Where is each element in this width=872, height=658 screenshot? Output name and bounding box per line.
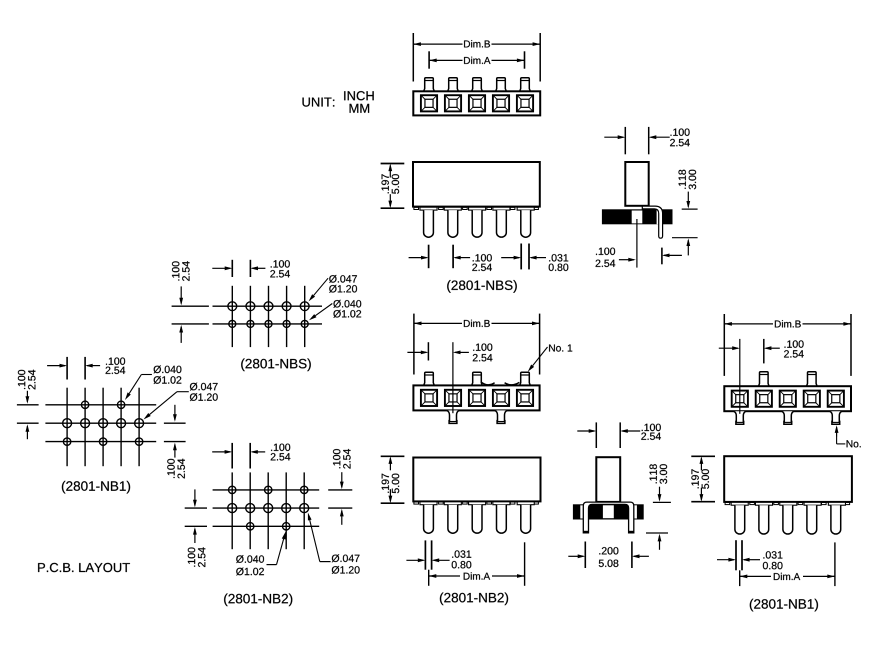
- NB1 layout right arrow up: [174, 445, 176, 458]
- 2801-NB2 side body: [596, 457, 620, 502]
- NB2 layout hole row1 col1: [229, 486, 236, 493]
- 2801-NB1 top socket hole 5: [828, 391, 844, 407]
- NBS layout dia .040 label: [333, 300, 361, 308]
- 2801-NB1 top bottom pin 1: [734, 411, 746, 424]
- 2801-NBS front .100/2.54 label: [473, 254, 492, 261]
- 2801-NBS top view pin 5: [520, 78, 531, 92]
- 2801-NBS front .197/5.00 label: [382, 174, 400, 194]
- NB1 layout grid row line 2: [45, 422, 156, 424]
- 2801-NBS side pitch arrows: [604, 136, 623, 138]
- NBS layout left arrow down: [180, 286, 182, 303]
- NB1 layout left .100/2.54 label: [18, 370, 36, 390]
- NB2 layout hole row3 col2: [247, 523, 254, 530]
- NBS layout hole row1 col1: [228, 302, 237, 311]
- 2801-NB1 top Dim.B line: [724, 323, 773, 325]
- NBS layout left .100/2.54 label: [172, 261, 190, 281]
- 2801-NB2 top Dim.B ext left: [413, 314, 415, 375]
- NBS layout dia .040 leader: [315, 304, 332, 316]
- 2801-NBS front view base tabs: [414, 207, 419, 209]
- 2801-NB2 top break arc 1: [481, 382, 494, 385]
- 2801-NB1 front base tabs: [725, 503, 730, 505]
- NB2 layout hole row2 col1: [228, 504, 237, 513]
- NB1 layout right stub row2: [164, 422, 186, 424]
- NB2 layout left arrow up: [194, 529, 196, 543]
- NBS layout hole row1 col2: [246, 302, 255, 311]
- 2801-NBS top view Dim.B extension line left: [412, 33, 414, 82]
- NB1 layout hole row3 col3: [99, 438, 106, 445]
- NB1 layout hole row2 col3: [99, 419, 108, 428]
- UNIT note: [303, 98, 335, 107]
- 2801-NBS side insulator bar: [602, 209, 673, 224]
- 2801-NB1 front pin 2: [759, 505, 769, 534]
- NB1 layout grid vertical 4: [120, 388, 122, 467]
- NBS layout hole row1 col4: [282, 302, 291, 311]
- NB1 layout hole row2 col5: [135, 419, 144, 428]
- 2801-NBS front .031 arrows: [501, 257, 519, 259]
- 2801-NBS front pitch tick 2: [452, 245, 454, 269]
- 2801-NBS side slot notch: [657, 209, 659, 224]
- 2801-NBS side bottom arrow left: [664, 254, 682, 256]
- 2801-NB1 front .197 arrows: [700, 458, 702, 470]
- 2801-NB2 top socket hole 2: [445, 390, 461, 406]
- 2801-NB1 front .197 ext top: [691, 455, 715, 457]
- 2801-NB2 front pin 1: [424, 505, 434, 533]
- 2801-NB2 top socket hole 5: [517, 390, 533, 406]
- 2801-NBS front pitch arrows: [409, 257, 427, 259]
- NBS layout hole row2 col5: [301, 320, 308, 327]
- 2801-NBS front .197 ext top: [381, 163, 405, 165]
- 2801-NBS front .031/0.80 label: [549, 254, 568, 261]
- 2801-NB1 front Dim.A ext left: [739, 570, 741, 586]
- 2801-NB1 top No.1 arrow: [836, 427, 838, 436]
- 2801-NBS side .118 line top: [682, 208, 698, 210]
- 2801-NB2 top pin2 centerline: [452, 342, 454, 413]
- NB1 layout dia .047 leader: [177, 391, 189, 393]
- NB2 layout hole row2 col3: [264, 504, 273, 513]
- NB2 layout hole row1 col3: [265, 486, 272, 493]
- NBS layout pitch tick 2: [249, 260, 251, 277]
- 2801-NB1 front pin 4: [807, 505, 817, 534]
- NBS layout grid vertical 2: [249, 286, 251, 347]
- NB1 layout hole row3 col5: [135, 438, 142, 445]
- NB1 layout grid row line 3: [45, 441, 156, 443]
- 2801-NBS side .118 arrow down: [687, 192, 689, 207]
- NB2 layout left stub row2: [185, 507, 207, 509]
- 2801-NB2 front .197/5.00 label: [382, 474, 400, 494]
- NB2 layout grid vertical 1: [231, 472, 233, 549]
- 2801-NB1 front Dim.A label: [774, 573, 800, 580]
- 2801-NB2 front pin 3: [472, 505, 482, 533]
- 2801-NB2 front .031 tick 2: [431, 540, 433, 569]
- NB2 layout right arrow up: [341, 511, 343, 525]
- 2801-NB1 top Dim.B label: [775, 320, 801, 327]
- NB1 layout grid row line 1: [45, 404, 156, 406]
- 2801-NB2 side staple lead: [583, 502, 634, 533]
- 2801-NB2 front .197 arrows: [389, 458, 391, 470]
- NB1 layout hole row2 col2: [81, 419, 90, 428]
- 2801-NB1 top socket hole 3: [780, 391, 796, 407]
- 2801-NBS front view pin 4: [497, 210, 507, 237]
- NB2 layout left .100/2.54 label: [188, 547, 206, 567]
- 2801-NBS side pin centerline: [636, 219, 638, 268]
- NB1 layout grid vertical 5: [138, 388, 140, 467]
- NB1 layout pitch tick 2: [84, 357, 86, 380]
- NB2 layout grid row line 1: [213, 489, 320, 491]
- NB1 layout right stub row3: [164, 441, 186, 443]
- NB1 layout left stub row2: [17, 422, 39, 424]
- 2801-NB1 front Dim.A line: [740, 575, 771, 577]
- 2801-NB1 top socket hole 1: [732, 391, 748, 407]
- NB1 layout left arrow up: [26, 426, 28, 439]
- 2801-NB1 top bottom pin 5: [830, 411, 842, 424]
- NB2 layout grid vertical 2: [249, 472, 251, 549]
- 2801-NB2 top No.1 leader: [533, 347, 548, 366]
- 2801-NB2 side slot right: [634, 505, 637, 518]
- 2801-NB1 front .031 tick 2: [741, 540, 743, 570]
- NB1 layout dia .040 label: [154, 366, 182, 374]
- 2801-NBS front view pin 2: [448, 210, 458, 237]
- NBS layout hole row1 col3: [264, 302, 273, 311]
- 2801-NB2 side slot left: [580, 505, 583, 518]
- 2801-NBS side bent lead: [642, 206, 662, 238]
- 2801-NB2 front base tabs: [414, 502, 419, 504]
- 2801-NB1 top socket hole 4: [804, 391, 820, 407]
- 2801-NB2 front Dim.A ext right: [524, 542, 526, 586]
- NB1 layout right arrow down: [174, 405, 176, 420]
- NB1 layout hole row3 col1: [63, 438, 70, 445]
- 2801-NBS side body: [625, 162, 648, 206]
- 2801-NB1 top body: [724, 386, 851, 411]
- 2801-NB2 top body: [413, 385, 539, 410]
- NB2 layout hole row2 col2: [246, 504, 255, 513]
- 2801-NB2 top socket hole 3: [469, 390, 485, 406]
- NB1 layout grid vertical 1: [66, 388, 68, 467]
- 2801-NB2 top Dim.B arrows: [414, 322, 416, 324]
- 2801-NB1 top No.1 leader line: [836, 436, 838, 444]
- NB2 layout pitch arrows: [212, 451, 230, 453]
- NB2 layout grid row line 2: [213, 507, 320, 509]
- 2801-NB1 front pin 5: [831, 505, 841, 534]
- 2801-NB1 top pitch arrows: [719, 347, 738, 349]
- 2801-NBS side lead tick: [661, 248, 663, 265]
- 2801-NB2 side staple leg tip right: [629, 531, 634, 533]
- 2801-NB2 top No.1 label: [549, 345, 572, 352]
- 2801-NB2 front Dim.A arrows: [429, 575, 431, 577]
- 2801-NB1 front pin 1: [735, 505, 745, 534]
- NBS layout grid vertical 4: [286, 286, 288, 347]
- NB2 layout dia .040 leader: [267, 564, 277, 566]
- 2801-NB2 side insulator bar: [573, 504, 644, 519]
- 2801-NB1 front .197/5.00 label: [691, 469, 709, 489]
- 2801-NB2 front pin 2: [448, 505, 458, 533]
- 2801-NB2 front pin 5: [521, 505, 531, 533]
- 2801-NBS top view Dim.B label: [464, 40, 490, 47]
- NBS layout grid vertical 3: [268, 286, 270, 347]
- 2801-NB1 top Dim.B ext left: [723, 314, 725, 376]
- 2801-NB2 side .118 arrow up: [659, 536, 661, 550]
- NBS layout dia .047 label: [329, 275, 357, 283]
- 2801-NBS side .118/3.00 label: [679, 170, 697, 190]
- 2801-NBS top view socket hole 2: [445, 95, 461, 111]
- NB1 layout hole row1 col4: [117, 401, 124, 408]
- NB1 layout pitch tick 1: [66, 357, 68, 380]
- NB2 layout dia .047 leader: [320, 561, 331, 563]
- 2801-NBS top view socket hole 3: [469, 95, 485, 111]
- 2801-NB1 front .197 ext bottom: [691, 501, 715, 503]
- 2801-NB2 top Dim.B label: [464, 320, 490, 327]
- NB2 layout left arrow down: [194, 489, 196, 505]
- NB1 layout hole row1 col2: [81, 401, 88, 408]
- 2801-NB1 front Dim.A ext right: [834, 542, 836, 586]
- 2801-NBS top view Dim.A dimension line: [429, 59, 462, 61]
- 2801-NB1 top Dim.B arrows: [724, 323, 726, 325]
- NBS layout caption: [241, 359, 311, 372]
- NB1 layout pitch arrows: [47, 365, 65, 367]
- 2801-NBS top view pin 2: [448, 78, 459, 92]
- 2801-NB1 front .031 tick 1: [735, 540, 737, 570]
- NBS layout grid row line 2: [172, 323, 209, 325]
- 2801-NB1 front body: [724, 456, 852, 502]
- NB2 layout grid row line 3: [213, 525, 320, 527]
- 2801-NB2 side .100/2.54 label: [642, 424, 661, 431]
- 2801-NB2 front .197 ext bottom: [381, 502, 405, 504]
- 2801-NB2 side .200 tick right: [631, 542, 633, 569]
- UNIT MM: [350, 104, 370, 113]
- 2801-NB2 top bottom pin 4: [495, 410, 507, 423]
- 2801-NB2 front pin 4: [497, 505, 507, 533]
- 2801-NBS top view Dim.A label: [464, 57, 490, 64]
- NBS layout grid vertical 1: [231, 286, 233, 347]
- NB2 layout pitch tick 1: [231, 443, 233, 469]
- 2801-NBS front view pin 3: [472, 210, 482, 237]
- 2801-NB1 top pin 2: [759, 372, 770, 386]
- NB2 layout pitch tick 2: [249, 443, 251, 469]
- NB2 layout hole row2 col4: [282, 504, 291, 513]
- NB2 layout hole row2 col5: [300, 504, 309, 513]
- 2801-NB2 side .200 tick left: [584, 542, 586, 569]
- NB2 layout right stub row1: [328, 489, 352, 491]
- NB2 layout left stub row3: [185, 525, 207, 527]
- 2801-NB2 front .031/0.80 label: [452, 550, 471, 557]
- NB2 layout dia .047 label: [332, 554, 360, 562]
- 2801-NBS side center slot: [632, 211, 643, 224]
- 2801-NB2 top pin1 tick: [427, 342, 429, 360]
- 2801-NBS front view pin 1: [424, 210, 434, 237]
- NB2 layout right stub row2: [328, 507, 352, 509]
- 2801-NB2 front caption: [440, 593, 508, 606]
- NB1 layout right .100/2.54 label: [167, 459, 185, 479]
- 2801-NBS top view socket hole 5: [517, 95, 533, 111]
- NB1 layout grid vertical 3: [102, 388, 104, 467]
- 2801-NB2 side pitch line right: [619, 422, 621, 448]
- 2801-NB2 side slot center: [603, 505, 614, 518]
- 2801-NBS front .197 ext bottom: [381, 207, 405, 209]
- 2801-NB1 top .100/2.54 label: [785, 340, 804, 347]
- 2801-NBS side pitch line left: [624, 127, 626, 154]
- 2801-NB1 top bottom pin 3: [782, 411, 794, 424]
- 2801-NB2 side staple leg tip left: [583, 531, 588, 533]
- 2801-NBS top view Dim.B arrows: [413, 43, 415, 45]
- 2801-NB1 top pin2 tick: [763, 339, 765, 364]
- P.C.B. LAYOUT heading: [38, 563, 130, 572]
- 2801-NB1 front .031 arrows: [717, 559, 734, 561]
- 2801-NBS top view Dim.A extension line right: [524, 51, 526, 68]
- 2801-NBS side .118 line bottom: [672, 237, 698, 239]
- 2801-NB2 top Dim.B ext right: [539, 314, 541, 375]
- 2801-NBS front .031 tick 2: [528, 244, 530, 270]
- 2801-NB1 top socket hole 2: [756, 391, 772, 407]
- NB2 layout caption: [224, 594, 292, 607]
- 2801-NB2 top pitch arrows: [407, 351, 426, 353]
- 2801-NB2 side .200 arrows: [568, 555, 583, 557]
- 2801-NB2 side .118 line top: [653, 501, 671, 503]
- 2801-NB2 front .031 tick 1: [424, 540, 426, 569]
- 2801-NB1 top Dim.B ext right: [850, 314, 852, 376]
- NB1 layout hole row2 col4: [117, 419, 126, 428]
- 2801-NB2 side pitch arrows: [577, 430, 594, 432]
- 2801-NB2 front body: [413, 458, 540, 502]
- 2801-NB1 front caption: [750, 599, 818, 612]
- NB1 layout dia .047 label: [190, 383, 218, 391]
- 2801-NBS top view socket hole 1: [421, 95, 437, 111]
- NB1 layout grid vertical 2: [84, 388, 86, 467]
- 2801-NBS top view Dim.A extension line left: [428, 51, 430, 68]
- NB1 layout .100/2.54 label: [106, 358, 125, 365]
- 2801-NB1 front Dim.A arrows: [740, 575, 742, 577]
- NBS layout hole row1 col5: [300, 302, 309, 311]
- 2801-NB2 top pin 1: [424, 372, 435, 385]
- 2801-NBS top view pin 4: [496, 78, 507, 92]
- 2801-NBS side .118 arrow up: [687, 240, 689, 255]
- 2801-NB1 top No.1 label: [847, 440, 861, 447]
- 2801-NBS top view Dim.B extension line right: [539, 33, 541, 82]
- NB1 layout dia .040 leader: [141, 374, 152, 376]
- NB1 layout caption: [62, 481, 130, 494]
- NB2 layout .100/2.54 label: [271, 444, 290, 451]
- NBS layout pitch arrows: [212, 267, 230, 269]
- UNIT INCH: [344, 91, 374, 100]
- NB1 layout left stub row1: [17, 404, 39, 406]
- 2801-NB2 front Dim.A ext left: [428, 570, 430, 586]
- 2801-NB2 side .118 arrow down: [659, 487, 661, 500]
- NB2 layout grid vertical 3: [267, 472, 269, 549]
- 2801-NBS side pitch line right: [648, 127, 650, 154]
- 2801-NBS top view body: [413, 91, 540, 115]
- 2801-NB2 top Dim.B line: [414, 322, 462, 324]
- NB2 layout dia .040 label: [236, 555, 264, 563]
- NBS layout left arrow up: [180, 327, 182, 343]
- 2801-NBS front view body: [413, 162, 540, 207]
- 2801-NB1 top pin1 centerline: [739, 339, 741, 414]
- 2801-NB1 front pin 3: [783, 505, 793, 534]
- 2801-NB1 front .031/0.80 label: [763, 551, 782, 558]
- 2801-NB2 top break arc 2: [505, 382, 520, 385]
- 2801-NB2 front .197 ext top: [381, 455, 405, 457]
- NBS layout pitch tick 1: [231, 260, 233, 277]
- NBS layout hole row2 col4: [283, 320, 290, 327]
- NBS layout hole row2 col3: [265, 320, 272, 327]
- 2801-NB2 front Dim.A label: [464, 572, 490, 579]
- 2801-NB2 side .200/5.08 label: [599, 547, 618, 554]
- NB2 layout hole row1 col5: [301, 486, 308, 493]
- 2801-NBS side .100/2.54 bottom label: [596, 248, 615, 255]
- 2801-NB2 top bottom pin 2: [447, 410, 459, 423]
- 2801-NB2 top socket hole 1: [421, 390, 437, 406]
- 2801-NB2 side .118 line bottom: [646, 532, 668, 534]
- NBS layout hole row2 col2: [247, 320, 254, 327]
- 2801-NB2 side .118/3.00 label: [650, 464, 668, 484]
- NB2 layout grid vertical 5: [303, 472, 305, 549]
- 2801-NB2 front .031 arrows: [406, 559, 423, 561]
- 2801-NBS side bottom arrow right: [619, 259, 634, 261]
- NBS layout grid vertical 5: [304, 286, 306, 347]
- NBS layout dia .047 leader: [314, 278, 328, 295]
- 2801-NB1 top pin 4: [807, 372, 818, 386]
- 2801-NBS top view pin 1: [424, 78, 435, 92]
- 2801-NB2 front Dim.A line: [429, 575, 460, 577]
- 2801-NBS front pitch tick 1: [428, 245, 430, 269]
- NB1 layout hole row2 col1: [63, 419, 72, 428]
- NBS layout hole row2 col1: [229, 320, 236, 327]
- 2801-NBS front .031 tick 1: [520, 244, 522, 270]
- 2801-NBS top view socket hole 4: [493, 95, 509, 111]
- NBS layout .100/2.54 label: [271, 260, 290, 267]
- 2801-NBS front .197 arrows: [389, 166, 391, 178]
- NB2 layout right .100/2.54 label: [333, 449, 351, 469]
- NB1 layout left arrow down: [26, 391, 28, 402]
- 2801-NBS top view Dim.A arrows: [429, 59, 431, 61]
- NB2 layout hole row3 col4: [283, 523, 290, 530]
- 2801-NB2 top socket hole 4: [493, 390, 509, 406]
- 2801-NB2 top .100/2.54 label: [473, 344, 492, 351]
- 2801-NBS caption: [447, 280, 517, 293]
- 2801-NBS top view pin 3: [472, 78, 483, 92]
- NB2 layout right arrow down: [341, 472, 343, 487]
- 2801-NBS front view pin 5: [521, 210, 531, 237]
- 2801-NBS top view Dim.B dimension line: [413, 43, 462, 45]
- NB2 layout grid vertical 4: [285, 472, 287, 549]
- 2801-NB2 top pin 3: [472, 372, 483, 385]
- 2801-NB2 top pin 5: [520, 372, 531, 385]
- NBS layout grid row line 1: [172, 305, 209, 307]
- 2801-NBS side .100/2.54 top label: [671, 129, 690, 136]
- 2801-NB2 side pitch line left: [595, 422, 597, 448]
